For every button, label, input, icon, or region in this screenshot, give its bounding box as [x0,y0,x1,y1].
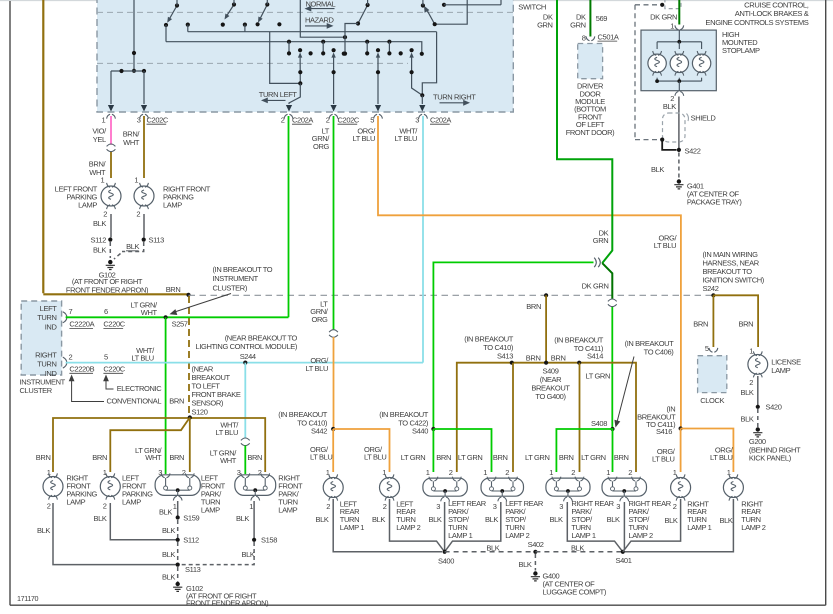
wire BLK S420 to ground G200 [757,409,759,427]
left rear turn lamp 2 [380,478,400,498]
switch wire: exit to pin 3 C202C [143,71,145,104]
svg-text:LT BLU: LT BLU [353,134,375,143]
svg-text:BLK: BLK [126,242,139,251]
svg-text:DK GRN: DK GRN [582,282,609,291]
svg-text:C220C: C220C [103,365,125,374]
splice S113 (upper) [142,238,146,242]
svg-text:BLK: BLK [162,526,175,535]
wire BRN S120 jog to left front parking lamp [110,418,190,473]
wire BRN across to harness [43,293,188,295]
wire BRN S242 to license lamp pin 1 [713,295,758,347]
svg-text:LAMP 2: LAMP 2 [741,523,765,532]
svg-text:S113: S113 [149,235,165,244]
svg-text:BLK: BLK [372,515,385,524]
svg-text:1: 1 [47,468,51,477]
wire BRN main feed from top of page [42,0,44,293]
svg-text:LIGHTING CONTROL MODULE): LIGHTING CONTROL MODULE) [196,342,298,351]
svg-text:C220C: C220C [103,320,125,329]
switch wire: upper bus [188,31,437,33]
wire BLK right rear turn lamp 2 to S401 [625,499,734,552]
svg-text:LAMP 2: LAMP 2 [505,531,529,540]
svg-text:BLK: BLK [236,514,249,523]
svg-text:S242: S242 [703,284,719,293]
ground G102 (at front of right front fender apron) [176,582,180,586]
switch wire: blade1 contact to lower bus [165,25,167,42]
svg-text:BLK: BLK [485,515,498,524]
svg-text:BRN: BRN [166,285,181,294]
switch inner dashed divider upper [97,11,513,13]
instrument cluster (dashed box) [21,301,61,375]
svg-text:LAMP: LAMP [771,366,790,375]
leader arrow CONVENTIONAL to C2220B [72,377,104,402]
svg-text:BLK: BLK [664,516,677,525]
splice S408 [610,427,614,431]
svg-text:GRN: GRN [570,21,586,30]
splice S401 [621,550,625,554]
svg-text:LAMP: LAMP [66,497,85,506]
svg-text:LT GRN: LT GRN [525,453,550,462]
svg-text:WHT: WHT [220,456,237,465]
svg-text:S113: S113 [185,565,201,574]
svg-text:BRN: BRN [436,453,451,462]
svg-text:TURN: TURN [37,360,56,369]
right rear park/stop/turn lamp 2 [602,478,647,496]
wire BRN/WHT from C202C pin 3 to right front parking lamp (upper) [143,116,145,178]
svg-text:BRN: BRN [493,453,508,462]
svg-text:3: 3 [616,502,620,511]
svg-text:1: 1 [549,468,553,477]
stoplamp internal bus top [678,30,680,42]
wire BRN rear lamp bus [457,363,636,472]
svg-text:BRN: BRN [169,396,184,405]
splice S159 [176,515,180,519]
svg-text:S120: S120 [192,407,208,416]
ground G200 (behind right kick panel) [756,427,760,431]
connector (dashed) on DK GRN stoplamp feed [665,0,681,9]
svg-text:BRN: BRN [92,453,107,462]
svg-text:BLK: BLK [93,245,106,254]
right front park/turn lamp [235,475,276,496]
wire BLK S112 to S113 [177,542,179,565]
cluster pin bracket right turn [63,357,67,368]
svg-text:ORG: ORG [313,142,329,151]
svg-text:C2220A: C2220A [69,320,94,329]
svg-text:S414: S414 [587,351,603,360]
switch contact blade 1 [169,6,178,21]
switch contact dots upper row [186,23,190,27]
svg-text:LT GRN: LT GRN [458,453,483,462]
svg-text:2: 2 [281,115,285,124]
svg-text:2: 2 [673,502,677,511]
svg-text:BLK: BLK [159,507,172,516]
svg-text:BLK: BLK [740,388,753,397]
wire LT GRN branch to S440 [433,262,593,429]
wire BLK S113 to ground G102 (upper) [122,242,144,252]
wire BLK S159 to S112 [177,520,179,540]
svg-text:LAMP: LAMP [163,201,182,210]
multifunction switch housing (dashed, cut off at top) [97,0,513,112]
svg-text:BRN: BRN [247,453,262,462]
wire ORG/LT BLU S416 to right rear turn lamps [681,429,734,473]
cruise control module boundary (dashed) [635,4,660,6]
connector pin 5 [374,114,383,118]
svg-text:S159: S159 [183,513,199,522]
svg-text:S413: S413 [497,351,513,360]
wire LT GRN/WHT S257 down to left front park/turn lamp pin 3 [165,317,167,474]
driver door module (dashed box) [578,44,603,79]
svg-text:6: 6 [104,307,108,316]
clock (dashed box) [698,356,727,393]
svg-text:LT BLU: LT BLU [216,428,238,437]
switch contact blade 2 [226,5,234,18]
leader arrow to splice S257 [173,294,231,313]
wire BRN dashed breakout down to S120 [188,296,190,418]
left front parking lamp [100,477,120,497]
svg-text:171170: 171170 [17,594,39,603]
splice S400 [443,550,447,554]
svg-text:CRUISE CONTROL,: CRUISE CONTROL, [744,0,809,9]
svg-text:LT BLU: LT BLU [654,241,676,250]
svg-text:2: 2 [749,378,753,387]
left rear park/stop/turn lamp 1 [423,478,467,496]
switch wire: hazard feed from top [300,0,345,37]
svg-text:LT BLU: LT BLU [652,455,674,464]
svg-text:ENGINE CONTROLS SYSTEMS: ENGINE CONTROLS SYSTEMS [705,18,808,27]
svg-text:3: 3 [436,502,440,511]
left rear turn lamp 1 [323,478,343,498]
svg-text:BLK: BLK [486,543,499,552]
svg-text:BLK: BLK [550,515,563,524]
svg-text:SENSOR): SENSOR) [192,398,224,407]
svg-text:S408: S408 [591,419,607,428]
svg-text:BLK: BLK [93,219,106,228]
wire BRN S120 down to left front park/turn lamp pin 2 [189,418,191,473]
right rear turn lamp 2 [723,478,743,498]
switch wiper contacts with arrows [298,48,302,52]
switch wire: exit to pin 2 C202C [333,55,335,105]
wire VIO/YEL from C202C pin 1 [110,116,112,145]
svg-text:WHT: WHT [123,138,140,147]
svg-text:LAMP: LAMP [278,505,297,514]
svg-text:GRN: GRN [593,236,609,245]
splice S242 [711,293,715,297]
splice S414 with drop to lamp [577,361,581,365]
svg-text:S158: S158 [261,536,277,545]
switch wire: wiper bar to lamp feeds [111,70,144,72]
svg-text:LT BLU: LT BLU [710,453,732,462]
svg-text:2: 2 [628,468,632,477]
svg-text:2: 2 [505,468,509,477]
leader arrow ELECTRONIC to C220C [106,377,114,389]
wire ORG/LT BLU from pin 5 across to right rear lamps [378,116,681,429]
svg-text:BLK: BLK [518,560,531,569]
wire BLK S112 to ground G102 (upper) [109,242,111,258]
svg-text:2: 2 [571,468,575,477]
svg-text:BRN: BRN [526,302,541,311]
svg-text:2: 2 [136,210,140,219]
svg-text:VIO/: VIO/ [92,127,107,136]
left front parking lamp (upper) [101,186,121,206]
splice S244 [243,361,247,365]
svg-text:HAZARD: HAZARD [305,16,335,25]
wire DK GRN from switch to rear lamps feed [557,0,612,263]
stoplamp bulb 3 [701,42,703,49]
connector C202C pin 2 [329,114,338,118]
left front park/turn lamp [155,475,200,496]
switch contact blade 4 with elbow [358,5,368,24]
splice S120 and BRN front lamp bus [53,418,265,472]
switch wire: feed stub down centre-left [133,0,135,71]
svg-text:1: 1 [426,468,430,477]
wire LT GRN/WHT cluster pin 7 to C202A pin 2 [66,316,289,318]
svg-text:1: 1 [134,176,138,185]
svg-text:TO G400): TO G400) [535,392,566,401]
shield (dashed) [663,113,686,142]
svg-text:KICK PANEL): KICK PANEL) [749,454,792,463]
svg-text:RIGHT: RIGHT [35,350,57,359]
svg-text:C501A: C501A [598,32,619,41]
svg-text:LT BLU: LT BLU [395,134,417,143]
junction on boundary (lower) to S422 [660,138,664,142]
splice S413 with drop to lamp [510,361,514,365]
connector C501A pin 8 [586,36,595,40]
svg-text:FRONT DOOR): FRONT DOOR) [566,128,615,137]
svg-text:BRN: BRN [551,354,566,363]
svg-text:BLK: BLK [571,543,584,552]
wire DK GRN circuit 569 to driver door module [589,0,591,37]
svg-text:2: 2 [326,115,330,124]
svg-text:1: 1 [173,502,177,511]
svg-text:ELECTRONIC: ELECTRONIC [117,384,163,393]
svg-text:LT GRN: LT GRN [581,453,606,462]
splice S420 [756,405,760,409]
splice S112 [176,538,180,542]
svg-text:C202A: C202A [292,115,313,124]
svg-text:2: 2 [103,502,107,511]
svg-text:BRN: BRN [36,453,51,462]
svg-text:LAMP 1: LAMP 1 [448,531,472,540]
svg-text:S416: S416 [656,427,672,436]
svg-text:BLK: BLK [740,415,753,424]
svg-text:BRN: BRN [169,453,184,462]
switch wire: exit to pin 3 C202A / turn right route [422,32,436,96]
svg-text:CLOCK: CLOCK [700,396,724,405]
svg-text:569: 569 [596,14,608,23]
svg-text:LAMP 1: LAMP 1 [687,523,711,532]
svg-text:BRN: BRN [559,453,574,462]
switch contact blade 5 (arrow) and riser [426,8,435,25]
svg-text:1: 1 [727,468,731,477]
switch inner dashed divider lower [97,62,408,64]
svg-text:S257: S257 [172,320,188,329]
svg-text:2: 2 [69,352,73,361]
svg-text:LUGGAGE COMPT): LUGGAGE COMPT) [543,587,607,596]
splice S416 [679,426,683,430]
stoplamp internal bus bottom [656,78,658,81]
svg-text:LAMP 1: LAMP 1 [571,531,595,540]
svg-text:BRN: BRN [738,320,753,329]
switch contact blade 3 [259,5,267,21]
svg-text:LAMP: LAMP [78,201,97,210]
svg-text:CLUSTER: CLUSTER [20,386,53,395]
stoplamp bulb 2 [678,42,680,49]
svg-text:BRN: BRN [526,354,541,363]
wire BRN S242 to clock pin 5 [712,295,714,347]
svg-text:LAMP 2: LAMP 2 [629,531,653,540]
wire BLK S402 to ground G400 [534,554,536,571]
inline connector on DK GRN at C406 [608,299,617,307]
wire LT GRN S440 branches to left rear park/stop/turn lamps [433,429,491,472]
right rear turn lamp 1 [671,478,691,498]
svg-text:S401: S401 [616,556,632,565]
wire LT GRN S408 branches to right rear park/stop/turn lamps [556,429,612,472]
switch wire: turn-left feeder from upper bus [270,32,301,84]
svg-text:STOPLAMP: STOPLAMP [722,46,760,55]
svg-text:3: 3 [493,502,497,511]
junction on harness for rear BRN feed [544,293,548,297]
svg-text:LT GRN: LT GRN [401,453,426,462]
high mounted stoplamp housing [641,30,716,91]
svg-text:7: 7 [69,307,73,316]
connector C202A pin 2 [284,114,293,118]
splice S158 [252,538,256,542]
switch wire: exit to pin 1 C202C [110,71,112,104]
svg-text:LEFT: LEFT [40,304,58,313]
svg-text:SWITCH: SWITCH [518,2,546,11]
svg-text:1: 1 [749,347,753,356]
svg-text:LT BLU: LT BLU [310,453,332,462]
svg-text:BLK: BLK [241,550,254,559]
svg-text:BLK: BLK [651,165,664,174]
wire WHT/LT BLU cluster pin 2 to C202A pin 3 [66,362,423,364]
svg-text:CLUSTER): CLUSTER) [213,284,248,293]
svg-text:2: 2 [449,468,453,477]
svg-text:LT GRN: LT GRN [585,372,610,381]
wire BRN down to S409 [545,295,547,362]
connector C202C pin 3 [140,114,149,118]
svg-text:8: 8 [582,33,586,42]
svg-text:WHT: WHT [145,453,162,462]
splice S257 [164,315,168,319]
svg-text:LAMP: LAMP [201,505,220,514]
ground G400 (at center of luggage compt) [533,571,537,575]
svg-text:1: 1 [670,22,674,31]
svg-text:LT BLU: LT BLU [306,364,328,373]
svg-text:S440: S440 [412,427,428,436]
wire BLK S402 to S401 (dashed) [535,551,622,553]
wire ORG/LT BLU S442 to left rear turn lamps [333,429,389,472]
switch lower bus contact stubs [287,40,291,44]
svg-text:1: 1 [101,176,105,185]
connector C202A pin 3 [419,114,428,118]
svg-text:5: 5 [370,115,374,124]
harness dashed run to S242 [189,294,714,296]
svg-text:LAMP 1: LAMP 1 [340,523,364,532]
svg-text:SHIELD: SHIELD [691,113,717,122]
wire ORG/LT BLU down to S442 [333,337,335,429]
svg-text:TO C406): TO C406) [644,348,675,357]
svg-text:3: 3 [559,502,563,511]
svg-text:2: 2 [47,502,51,511]
svg-text:BRN: BRN [693,320,708,329]
wire BLK S400 to S402 (dashed) [445,551,536,553]
svg-text:S422: S422 [685,146,701,155]
svg-text:S402: S402 [528,540,544,549]
splice S442 [331,427,335,431]
svg-text:FRONT FENDER APRON): FRONT FENDER APRON) [66,285,149,294]
left rear park/stop/turn lamp 2 [481,478,524,496]
stoplamp pin 2 [675,92,684,96]
svg-text:LAMP 2: LAMP 2 [396,523,420,532]
switch wire: top-right link [442,3,446,7]
cluster pin bracket left turn [63,312,67,323]
svg-text:DK GRN: DK GRN [650,12,677,21]
right front parking lamp (upper) [134,186,154,206]
splice S113 [176,563,180,567]
svg-text:BLK: BLK [162,550,175,559]
splice S440 [431,427,435,431]
svg-text:TURN: TURN [37,313,56,322]
wire LT GRN/ORG from C202C pin 2 [333,116,335,330]
wire BLK S422 to ground G401 [678,153,680,179]
junction on boundary (top) [660,3,664,7]
switch wire: turn-left exit to pin 2 C202A [299,55,301,84]
svg-text:IND: IND [45,323,58,332]
svg-text:BLK: BLK [93,514,106,523]
svg-text:TURN LEFT: TURN LEFT [259,90,298,99]
license lamp [748,355,768,375]
wire BLK S158 to S113 (dashed) [180,542,255,565]
svg-text:BLK: BLK [37,526,50,535]
svg-text:BLK: BLK [162,572,175,581]
svg-text:BRN: BRN [614,453,629,462]
svg-text:BLK: BLK [719,516,732,525]
svg-text:BLK: BLK [663,102,676,111]
svg-text:S442: S442 [311,427,327,436]
inline connector on wire W1 [107,144,116,152]
svg-text:C202C: C202C [147,115,169,124]
svg-text:2: 2 [383,502,387,511]
svg-text:5: 5 [104,352,108,361]
svg-text:C2220B: C2220B [69,365,94,374]
svg-text:S112: S112 [183,536,199,545]
inline connector on right front park/turn feed [241,438,250,446]
svg-text:(IN BREAKOUT TO: (IN BREAKOUT TO [213,265,273,274]
svg-text:INSTRUMENT: INSTRUMENT [213,274,259,283]
svg-text:BLK: BLK [315,515,328,524]
wire BLK S113 to ground G102 [177,567,179,582]
splice S402 [533,550,537,554]
svg-text:ORG: ORG [312,315,328,324]
svg-text:FRONT FENDER APRON): FRONT FENDER APRON) [186,598,269,607]
svg-text:S244: S244 [240,352,256,361]
svg-text:1: 1 [606,468,610,477]
wire DK GRN to high mounted stoplamp [678,0,680,25]
svg-text:LT BLU: LT BLU [131,354,153,363]
svg-text:2: 2 [326,502,330,511]
svg-text:1: 1 [249,502,253,511]
svg-text:1: 1 [483,468,487,477]
svg-text:LAMP: LAMP [122,497,141,506]
svg-text:ANTI-LOCK BRAKES &: ANTI-LOCK BRAKES & [735,9,809,18]
svg-text:BLK: BLK [428,515,441,524]
wire BLK stoplamp to S422 [678,97,680,150]
svg-text:S112: S112 [91,235,107,244]
ground G102 (upper, at front of right front fender apron) [108,260,112,264]
switch wire: lower bus [166,42,422,54]
svg-text:WHT: WHT [141,308,158,317]
right rear park/stop/turn lamp 1 [546,478,590,496]
